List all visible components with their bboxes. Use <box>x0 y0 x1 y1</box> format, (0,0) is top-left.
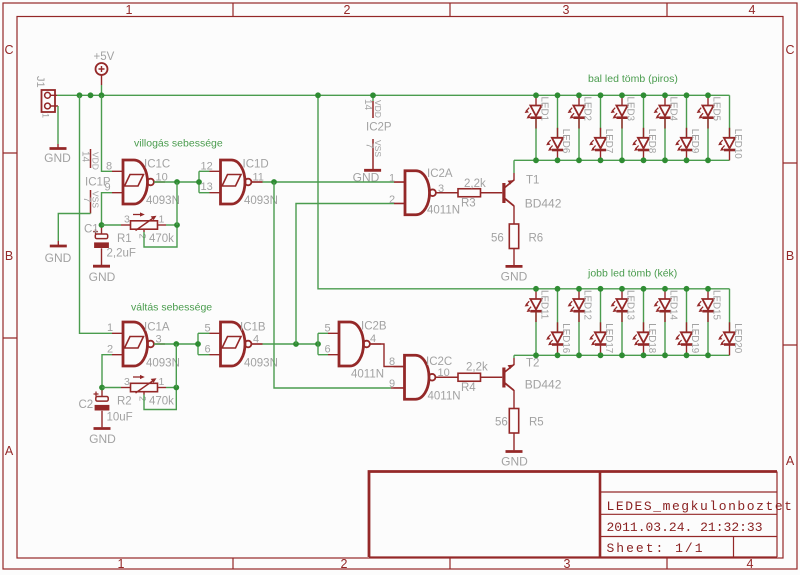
resistor R6 <box>509 224 518 249</box>
svg-text:3: 3 <box>124 214 130 226</box>
svg-text:GND: GND <box>501 270 528 284</box>
svg-text:IC1C: IC1C <box>144 159 170 171</box>
LED LED3 <box>611 95 636 160</box>
svg-text:8: 8 <box>106 161 112 173</box>
wire IC1D out down to IC2C pin9 <box>274 182 391 388</box>
ground under R6 <box>506 265 523 268</box>
wire T2 collector to R5 <box>513 390 515 409</box>
LED LED4 <box>654 95 679 160</box>
svg-text:LED19: LED19 <box>689 323 700 353</box>
svg-text:GND: GND <box>89 432 116 446</box>
LED LED12 <box>568 289 593 356</box>
svg-text:10uF: 10uF <box>107 412 133 424</box>
svg-text:R2: R2 <box>117 396 132 408</box>
wire IC1C pin9 node <box>102 193 113 225</box>
svg-text:9: 9 <box>105 182 111 194</box>
frame column ticks bottom <box>233 558 667 569</box>
svg-text:LED20: LED20 <box>732 323 743 354</box>
svg-text:R1: R1 <box>117 233 132 245</box>
svg-text:9: 9 <box>389 378 395 390</box>
svg-text:váltás sebessége: váltás sebessége <box>131 302 212 314</box>
svg-text:LED6: LED6 <box>560 129 571 154</box>
svg-text:VDD: VDD <box>91 152 101 170</box>
svg-text:A: A <box>786 454 795 468</box>
svg-text:IC2P: IC2P <box>366 122 392 134</box>
connector J1 <box>42 90 59 112</box>
svg-text:LED18: LED18 <box>646 323 657 354</box>
svg-text:470k: 470k <box>149 396 174 408</box>
svg-text:3: 3 <box>563 3 570 17</box>
svg-text:14: 14 <box>362 99 373 111</box>
svg-text:R4: R4 <box>461 382 476 394</box>
frame column ticks top <box>233 3 667 17</box>
svg-text:LEDES_megkulonboztet: LEDES_megkulonboztet <box>607 499 794 514</box>
svg-text:LED10: LED10 <box>732 129 743 160</box>
svg-text:2011.03.24. 21:32:33: 2011.03.24. 21:32:33 <box>607 520 763 535</box>
wire +5V stem <box>101 85 103 95</box>
svg-text:4093N: 4093N <box>244 358 278 370</box>
wire feedback R2 to IC1A output <box>175 344 177 388</box>
svg-text:R3: R3 <box>461 198 476 210</box>
wire IC1D input bracket <box>198 171 200 192</box>
resistor R5 <box>509 409 518 434</box>
wire C2 to R2 <box>102 387 121 389</box>
svg-text:LED9: LED9 <box>689 129 700 154</box>
svg-text:C1: C1 <box>84 224 99 236</box>
svg-text:1: 1 <box>118 557 125 571</box>
op-amp gate IC1C <box>123 160 148 204</box>
trimmer R2 <box>131 383 158 391</box>
svg-text:IC1A: IC1A <box>144 322 170 334</box>
svg-text:LED13: LED13 <box>625 290 636 321</box>
wire C1 to R1 <box>102 224 122 226</box>
svg-text:LED12: LED12 <box>582 290 593 320</box>
LED LED6 <box>546 95 571 160</box>
svg-text:villogás sebessége: villogás sebessége <box>134 138 223 150</box>
svg-text:VSS: VSS <box>91 191 101 208</box>
LED LED15 <box>697 289 722 356</box>
wire IC1B input bracket <box>197 333 199 354</box>
svg-text:5: 5 <box>205 323 211 335</box>
node junctions block1 rails <box>533 92 539 98</box>
svg-text:BD442: BD442 <box>525 197 562 211</box>
svg-text:4093N: 4093N <box>146 195 180 207</box>
capacitor C2 <box>101 390 103 397</box>
svg-text:470k: 470k <box>149 233 174 245</box>
svg-text:3: 3 <box>124 376 130 388</box>
svg-text:13: 13 <box>201 181 213 193</box>
svg-text:2,2k: 2,2k <box>466 362 488 374</box>
svg-text:T2: T2 <box>526 358 539 370</box>
svg-text:BD442: BD442 <box>525 378 562 392</box>
wire R1 wiper loop <box>143 230 145 233</box>
power pins IC1P <box>90 149 92 214</box>
svg-text:jobb led tömb (kék): jobb led tömb (kék) <box>587 268 677 280</box>
svg-text:LED7: LED7 <box>603 129 614 154</box>
svg-text:56: 56 <box>491 233 504 245</box>
trimmer R1 <box>131 221 158 229</box>
node R1 right <box>174 222 180 228</box>
svg-text:bal led tömb (piros): bal led tömb (piros) <box>588 73 678 85</box>
svg-text:56: 56 <box>495 417 508 429</box>
svg-text:6: 6 <box>325 344 331 356</box>
svg-text:2: 2 <box>137 234 148 239</box>
svg-text:IC2B: IC2B <box>361 321 387 333</box>
resistor R4 <box>458 373 481 381</box>
svg-text:1: 1 <box>107 322 113 334</box>
node IC2P vdd <box>370 92 376 98</box>
ground under C2 <box>94 427 111 430</box>
node IC1A output <box>173 341 179 347</box>
svg-text:1: 1 <box>41 113 51 118</box>
svg-text:GND: GND <box>45 251 72 265</box>
wire T1 emitter to rail <box>513 160 515 173</box>
svg-text:VSS: VSS <box>373 140 383 157</box>
svg-text:T1: T1 <box>526 175 539 187</box>
wire T1 collector to R6 <box>513 206 515 225</box>
LED LED10 <box>718 95 743 160</box>
svg-text:7: 7 <box>81 197 92 203</box>
svg-text:2: 2 <box>344 3 351 17</box>
node IC1C output <box>174 179 180 185</box>
wire IC1B out up to IC2A pin2 <box>296 204 394 345</box>
wire +5V feed to block2 <box>318 95 730 288</box>
LED LED18 <box>632 289 657 356</box>
svg-text:1: 1 <box>159 376 165 388</box>
capacitor C1 <box>101 227 103 234</box>
wire IC1P vss to gnd <box>58 214 90 242</box>
svg-text:2: 2 <box>137 396 148 401</box>
svg-text:+5V: +5V <box>94 51 115 63</box>
svg-text:IC2A: IC2A <box>427 168 453 180</box>
LED LED13 <box>611 289 636 356</box>
svg-text:IC1D: IC1D <box>243 159 269 171</box>
svg-text:GND: GND <box>44 151 71 165</box>
LED LED11 <box>525 289 550 356</box>
wire R2 pin1 to node <box>158 387 167 389</box>
svg-text:LED3: LED3 <box>625 97 636 122</box>
svg-text:B: B <box>5 249 13 263</box>
LED LED19 <box>675 289 700 356</box>
svg-text:4093N: 4093N <box>146 358 180 370</box>
gate IC2A <box>405 171 430 215</box>
svg-text:7: 7 <box>364 143 375 149</box>
power pins IC2P <box>372 95 374 101</box>
ground under IC2P <box>364 169 381 172</box>
svg-text:2: 2 <box>341 557 348 571</box>
wire IC1B out to IC2B <box>252 343 263 345</box>
node C1 <box>99 222 105 228</box>
svg-text:1: 1 <box>126 3 133 17</box>
wire IC2B input bracket <box>317 333 319 354</box>
svg-text:J1: J1 <box>34 76 46 88</box>
svg-text:LED1: LED1 <box>539 97 550 122</box>
transistor T2 <box>502 368 505 388</box>
svg-text:LED11: LED11 <box>539 290 550 319</box>
svg-text:LED17: LED17 <box>603 323 614 353</box>
wire IC2B out to IC2C pin8 <box>370 344 405 367</box>
gate IC2B <box>339 322 364 366</box>
svg-text:2: 2 <box>107 344 113 356</box>
svg-text:R5: R5 <box>529 417 544 429</box>
svg-text:VDD: VDD <box>373 100 383 118</box>
svg-text:4: 4 <box>747 557 754 571</box>
LED LED8 <box>632 95 657 160</box>
svg-text:C: C <box>4 43 13 57</box>
frame row ticks right <box>783 163 797 345</box>
gate IC1A <box>123 322 148 366</box>
wire +5V to IC1C pin8 <box>102 95 113 171</box>
svg-text:3: 3 <box>564 557 571 571</box>
node junction rail left <box>77 92 83 98</box>
wire IC2A out to R3 <box>436 192 458 194</box>
wire J1 pin1 to gnd <box>57 106 59 144</box>
wire IC1A out to IC1B in <box>154 343 198 345</box>
svg-text:Sheet: 1/1: Sheet: 1/1 <box>607 541 705 556</box>
svg-text:2: 2 <box>389 194 395 206</box>
svg-text:2,2k: 2,2k <box>464 178 486 190</box>
svg-text:C: C <box>785 43 794 57</box>
wire feedback R1 to IC1C output <box>176 182 178 225</box>
ground under C1 <box>93 265 110 268</box>
svg-text:LED4: LED4 <box>668 97 679 122</box>
svg-text:R6: R6 <box>529 233 544 245</box>
wire IC1C out to IC1D in <box>154 181 199 183</box>
svg-text:B: B <box>786 249 794 263</box>
frame row ticks left <box>3 153 17 338</box>
node IC1D out branch <box>271 179 277 185</box>
svg-text:LED2: LED2 <box>582 97 593 122</box>
LED LED2 <box>568 95 593 160</box>
LED LED17 <box>589 289 614 356</box>
LED LED14 <box>654 289 679 356</box>
transistor T1 <box>502 183 505 203</box>
svg-text:4: 4 <box>370 333 376 345</box>
svg-text:LED5: LED5 <box>711 97 722 122</box>
svg-text:4: 4 <box>749 3 756 17</box>
svg-text:5: 5 <box>325 323 331 335</box>
gate IC1B <box>221 322 246 366</box>
svg-text:1: 1 <box>159 214 165 226</box>
svg-text:4093N: 4093N <box>244 195 278 207</box>
svg-text:LED16: LED16 <box>560 323 571 354</box>
wire IC1D out to IC2A pin1 <box>252 181 263 183</box>
svg-text:A: A <box>5 444 14 458</box>
ground under R5 <box>506 450 523 453</box>
svg-text:IC1B: IC1B <box>240 322 266 334</box>
svg-text:LED15: LED15 <box>711 290 722 321</box>
svg-text:LED8: LED8 <box>646 129 657 154</box>
svg-text:6: 6 <box>205 344 211 356</box>
LED LED20 <box>718 289 743 356</box>
LED LED5 <box>697 95 722 160</box>
LED LED7 <box>589 95 614 160</box>
svg-text:4011N: 4011N <box>427 205 460 217</box>
node IC1B out branches <box>293 341 299 347</box>
resistor R3 <box>458 189 481 197</box>
wire IC1A pin2 node <box>102 355 112 388</box>
node R2 right <box>173 385 179 391</box>
+5V supply symbol <box>96 63 108 85</box>
node junctions block2 rails <box>533 286 539 292</box>
wire LED block2 bottom rail <box>514 354 730 356</box>
svg-text:LED14: LED14 <box>668 290 679 321</box>
ground under J1 <box>50 147 67 150</box>
wire R3 to T1 base <box>481 192 503 194</box>
gate IC1D <box>221 160 246 204</box>
LED LED1 <box>525 95 550 160</box>
svg-text:4011N: 4011N <box>351 369 384 381</box>
svg-text:GND: GND <box>89 270 116 284</box>
svg-text:IC2C: IC2C <box>426 356 452 368</box>
wire +5V rail <box>57 94 730 96</box>
wire IC2C out to R4 <box>436 376 459 378</box>
LED LED9 <box>675 95 700 160</box>
svg-text:1: 1 <box>389 173 395 185</box>
wire R4 to T2 base <box>481 376 503 378</box>
svg-text:14: 14 <box>80 151 91 163</box>
svg-text:C2: C2 <box>79 399 94 411</box>
title block <box>369 472 777 558</box>
svg-text:12: 12 <box>201 161 213 173</box>
node C2 <box>99 385 105 391</box>
svg-text:4011N: 4011N <box>428 391 461 403</box>
wire LED block1 bottom rail <box>514 159 730 161</box>
wire R1 pin1 to node <box>158 224 167 226</box>
wire T2 emitter to rail <box>513 355 515 358</box>
wire R2 wiper loop <box>143 392 145 395</box>
gate IC2C <box>405 355 430 399</box>
LED LED16 <box>546 289 571 356</box>
svg-text:2,2uF: 2,2uF <box>107 248 136 260</box>
wire +5V to IC1A pin1 <box>80 95 113 333</box>
ground under IC1P <box>50 245 67 248</box>
svg-text:GND: GND <box>501 455 528 469</box>
